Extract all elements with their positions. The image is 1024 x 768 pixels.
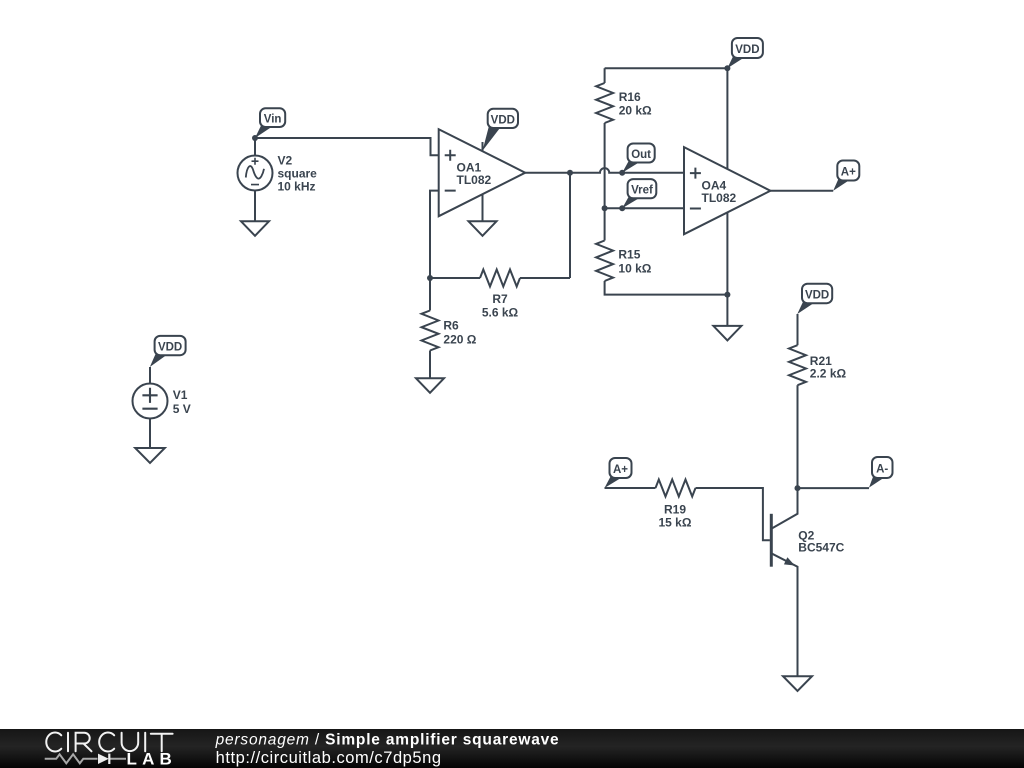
svg-text:A+: A+ [613, 464, 628, 476]
svg-text:10 kHz: 10 kHz [278, 180, 316, 194]
svg-text:V1: V1 [173, 388, 188, 402]
svg-text:http://circuitlab.com/c7dp5ng: http://circuitlab.com/c7dp5ng [216, 749, 442, 767]
svg-text:15 kΩ: 15 kΩ [659, 515, 692, 529]
svg-text:A-: A- [876, 464, 888, 476]
svg-text:220 Ω: 220 Ω [443, 332, 476, 346]
svg-text:5.6 kΩ: 5.6 kΩ [482, 305, 519, 319]
svg-text:R16: R16 [619, 90, 641, 104]
svg-text:Vin: Vin [264, 114, 282, 126]
svg-text:BC547C: BC547C [798, 540, 844, 554]
svg-text:V2: V2 [278, 154, 293, 168]
svg-text:LAB: LAB [127, 750, 178, 768]
svg-text:TL082: TL082 [457, 173, 492, 187]
svg-text:A+: A+ [841, 167, 856, 179]
svg-text:Out: Out [631, 149, 651, 161]
svg-text:TL082: TL082 [702, 191, 737, 205]
svg-text:VDD: VDD [735, 44, 759, 56]
svg-text:R19: R19 [664, 502, 686, 516]
svg-text:10 kΩ: 10 kΩ [618, 261, 651, 275]
svg-text:VDD: VDD [491, 114, 515, 126]
svg-text:2.2 kΩ: 2.2 kΩ [810, 366, 847, 380]
svg-text:R15: R15 [618, 248, 640, 262]
svg-text:VDD: VDD [805, 289, 829, 301]
svg-text:Vref: Vref [631, 185, 653, 197]
svg-text:R7: R7 [492, 292, 508, 306]
svg-text:square: square [278, 167, 318, 181]
svg-text:R6: R6 [443, 318, 459, 332]
svg-text:personagem / Simple amplifier: personagem / Simple amplifier squarewave [215, 732, 560, 749]
svg-text:VDD: VDD [158, 342, 182, 354]
svg-text:20 kΩ: 20 kΩ [619, 103, 652, 117]
svg-text:5 V: 5 V [173, 402, 191, 416]
